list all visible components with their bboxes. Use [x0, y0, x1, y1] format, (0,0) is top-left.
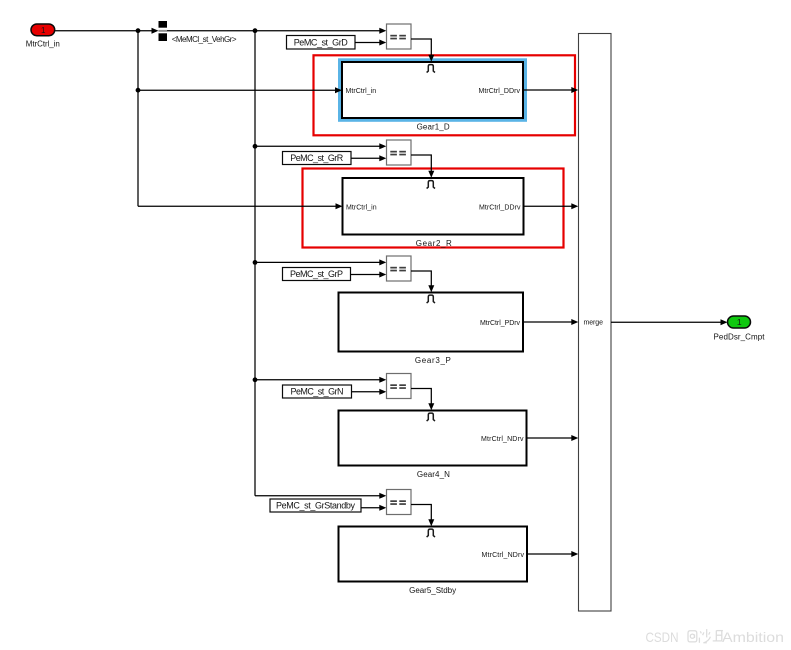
- junction B4: [253, 377, 258, 382]
- junction B3: [253, 260, 258, 265]
- svg-text:PedDsr_Cmpt: PedDsr_Cmpt: [714, 332, 766, 341]
- svg-text:<MeMCl_st_VehGr>: <MeMCl_st_VehGr>: [172, 35, 237, 44]
- outport PedDsr_Cmpt: [728, 316, 751, 328]
- svg-text:MtrCtrl_DDrv: MtrCtrl_DDrv: [479, 204, 521, 211]
- relational operator eq5: [387, 490, 412, 515]
- wire vertical B: [254, 31, 256, 496]
- svg-text:MtrCtrl_in: MtrCtrl_in: [346, 88, 377, 95]
- wire PeMC_st_GrN to eq: [352, 389, 387, 395]
- wire eq1 to enable port: [411, 39, 434, 62]
- svg-text:Gear4_N: Gear4_N: [417, 470, 450, 479]
- svg-text:MtrCtrl_PDrv: MtrCtrl_PDrv: [480, 320, 521, 327]
- svg-text:merge: merge: [584, 320, 604, 327]
- junction B2: [253, 144, 258, 149]
- svg-text:MtrCtrl_NDrv: MtrCtrl_NDrv: [481, 436, 524, 443]
- svg-text:Gear2_R: Gear2_R: [416, 239, 452, 248]
- inport MtrCtrl_in: [31, 24, 55, 36]
- svg-text:Gear3_P: Gear3_P: [415, 356, 451, 365]
- wire Gear4_N to merge: [527, 435, 579, 441]
- subsystem Gear1_D: [342, 62, 523, 118]
- wire Gear1_D to merge: [523, 87, 578, 93]
- relational operator eq3: [387, 256, 412, 281]
- constant PeMC_st_GrN: [283, 385, 352, 398]
- svg-text:PeMC_st_GrD: PeMC_st_GrD: [294, 38, 349, 48]
- wire PeMC_st_GrP to eq: [351, 272, 387, 278]
- wire Gear5_Stdby to merge: [527, 551, 578, 557]
- wire PeMC_st_GrD to eq: [355, 40, 386, 46]
- svg-text:Ambition: Ambition: [722, 629, 784, 645]
- red highlight rect Gear2: [303, 169, 564, 248]
- merge block: [579, 34, 612, 612]
- svg-text:MtrCtrl_in: MtrCtrl_in: [26, 40, 60, 49]
- relational operator eq4: [387, 374, 412, 399]
- svg-text:CSDN: CSDN: [646, 629, 679, 645]
- wire eq4 to enable port: [411, 389, 434, 411]
- svg-text:1: 1: [737, 317, 742, 327]
- wire B to eq3: [255, 259, 386, 265]
- wire PeMC_st_GrStandby to eq: [361, 505, 386, 511]
- relational operator eq1: [387, 24, 412, 49]
- subsystem Gear2_R: [343, 178, 524, 235]
- svg-text:Gear1_D: Gear1_D: [417, 122, 450, 131]
- svg-text:PeMC_st_GrN: PeMC_st_GrN: [291, 387, 344, 397]
- svg-text:Gear5_Stdby: Gear5_Stdby: [409, 586, 456, 595]
- junction A2: [136, 88, 141, 93]
- svg-text:PeMC_st_GrP: PeMC_st_GrP: [290, 269, 343, 279]
- constant PeMC_st_GrR: [283, 152, 352, 165]
- wire B to eq4: [255, 377, 386, 383]
- wire eq5 to enable port: [411, 505, 434, 527]
- wire merge to outport: [611, 319, 728, 325]
- svg-text:MtrCtrl_in: MtrCtrl_in: [346, 204, 377, 211]
- wire eq2 to enable port: [411, 155, 434, 178]
- constant PeMC_st_GrP: [283, 268, 351, 281]
- subsystem Gear5_Stdby: [339, 527, 528, 582]
- wire Gear3_P to merge: [523, 319, 578, 325]
- wire bus selector to eq1: [167, 28, 386, 34]
- wire vertical A: [137, 31, 139, 207]
- subsystem Gear4_N: [339, 411, 527, 466]
- svg-text:MtrCtrl_NDrv: MtrCtrl_NDrv: [482, 552, 525, 559]
- junction A1: [136, 28, 141, 33]
- blue selection highlight Gear1: [338, 58, 527, 122]
- wire B to eq5: [255, 493, 386, 499]
- red highlight rect Gear1: [314, 55, 576, 135]
- wire A to Gear1 input: [138, 87, 342, 93]
- watermark CSDN @shaqiu Ambition: [646, 629, 785, 645]
- bus selector: [159, 21, 168, 41]
- junction B1: [253, 28, 258, 33]
- constant PeMC_st_GrD: [287, 36, 356, 50]
- constant PeMC_st_GrStandby: [270, 499, 361, 512]
- svg-text:PeMC_st_GrR: PeMC_st_GrR: [290, 153, 344, 163]
- wire B to eq2: [255, 143, 386, 149]
- svg-text:1: 1: [41, 26, 46, 35]
- wire PeMC_st_GrR to eq: [351, 155, 386, 161]
- subsystem Gear3_P: [339, 293, 524, 352]
- wire Gear2_R to merge: [524, 203, 579, 209]
- wire inport to bus selector: [55, 28, 159, 34]
- wire eq3 to enable port: [411, 271, 434, 292]
- svg-text:PeMC_st_GrStandby: PeMC_st_GrStandby: [276, 501, 356, 511]
- svg-text:MtrCtrl_DDrv: MtrCtrl_DDrv: [479, 88, 521, 95]
- relational operator eq2: [387, 140, 412, 165]
- wire A to Gear2 input: [138, 203, 343, 209]
